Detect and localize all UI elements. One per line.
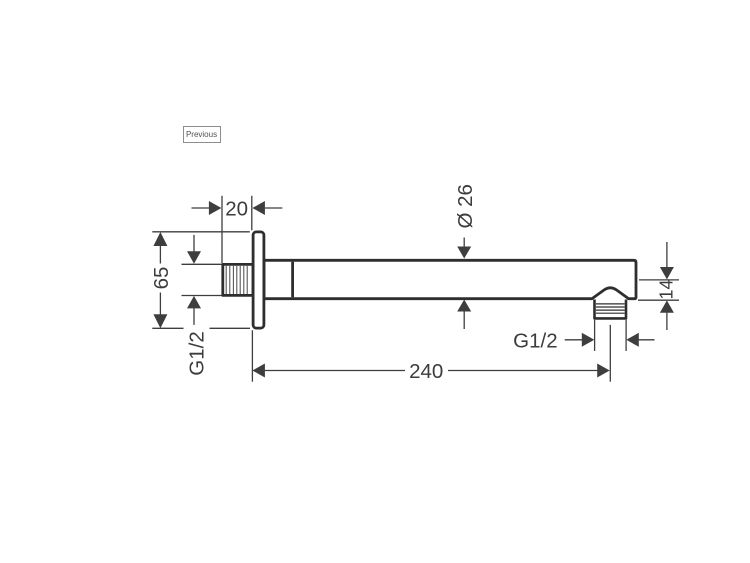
svg-text:G1/2: G1/2: [186, 331, 209, 375]
svg-text:65: 65: [150, 267, 173, 290]
svg-text:14: 14: [657, 279, 677, 299]
svg-text:20: 20: [225, 197, 248, 220]
svg-text:Ø 26: Ø 26: [454, 184, 477, 228]
svg-text:240: 240: [409, 360, 443, 383]
svg-text:G1/2: G1/2: [513, 330, 557, 353]
